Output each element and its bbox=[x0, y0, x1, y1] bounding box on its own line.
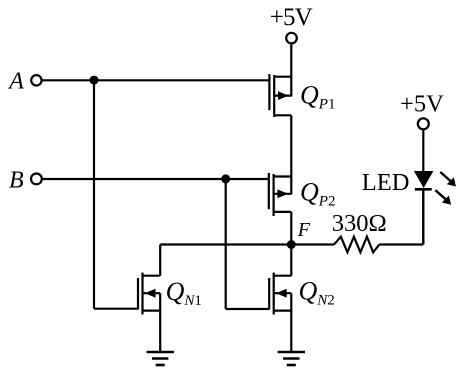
svg-text:+5V: +5V bbox=[270, 4, 313, 31]
svg-text:B: B bbox=[9, 168, 24, 194]
svg-text:QN1: QN1 bbox=[166, 277, 202, 309]
svg-text:F: F bbox=[297, 219, 311, 241]
svg-text:+5V: +5V bbox=[400, 91, 444, 118]
svg-text:LED: LED bbox=[362, 169, 410, 196]
svg-text:QN2: QN2 bbox=[299, 277, 335, 309]
svg-text:A: A bbox=[7, 68, 24, 94]
svg-text:QP1: QP1 bbox=[300, 81, 335, 113]
svg-text:QP2: QP2 bbox=[300, 178, 335, 210]
svg-text:330Ω: 330Ω bbox=[332, 210, 387, 237]
